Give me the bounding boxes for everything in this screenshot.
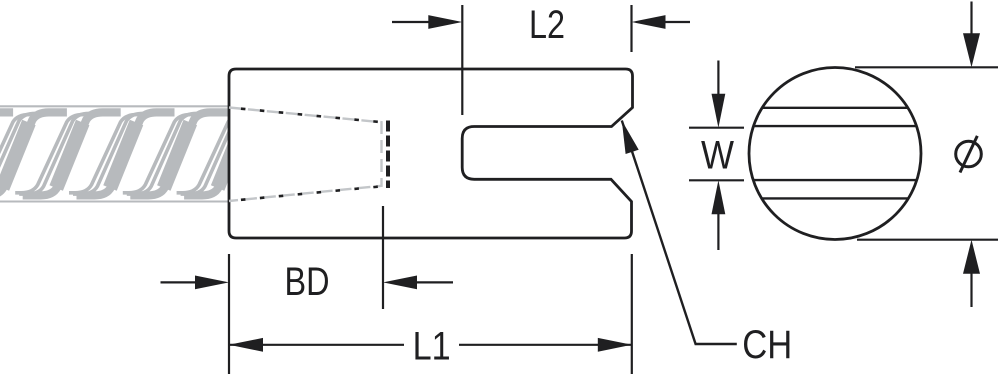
CH leader line and arrow <box>622 121 737 345</box>
L1 left extension line <box>228 254 230 374</box>
BD left arrow <box>161 281 202 283</box>
rebar rib cluster 6 <box>177 115 251 193</box>
hidden taper, black dashes (tapered bore) <box>229 108 388 123</box>
diameter bottom arrow <box>970 271 972 307</box>
svg-text:W: W <box>701 134 734 178</box>
BD right arrow <box>412 281 453 283</box>
BD extension line (bore end) <box>382 206 384 309</box>
L2 right arrow <box>660 21 690 23</box>
svg-text:L2: L2 <box>529 3 565 47</box>
rebar rib cluster 5 <box>123 115 197 193</box>
diameter bottom extension line <box>857 239 998 241</box>
L1 right extension line <box>631 254 633 374</box>
diameter symbol <box>956 141 982 167</box>
slot edge chord bottom <box>753 179 917 181</box>
bore end, black dashed vertical <box>386 121 390 189</box>
chamfer edge chord top <box>762 107 908 109</box>
rebar (deformed bar, light gray) <box>0 106 282 201</box>
L2 left arrow <box>392 21 434 23</box>
L2 extension line (body right face) <box>630 5 632 52</box>
diameter top arrow <box>970 2 972 39</box>
W upper arrow <box>717 61 719 100</box>
L1 dimension line right part <box>459 344 632 346</box>
slot edge chord top <box>754 125 917 127</box>
W tick top <box>689 127 744 129</box>
rebar rib cluster 2 <box>0 115 35 193</box>
coupler body outline <box>229 69 633 238</box>
L1 dimension line left part <box>229 344 404 346</box>
W lower arrow <box>717 209 719 250</box>
end-view circle <box>749 68 921 240</box>
hidden taper, gray dashed (rebar end inside body) <box>229 108 382 202</box>
rebar rib cluster 3 <box>15 115 89 193</box>
chamfer edge chord bottom <box>762 197 909 199</box>
rebar rib cluster 4 <box>69 115 143 193</box>
svg-text:L1: L1 <box>413 325 451 369</box>
svg-text:BD: BD <box>285 260 330 304</box>
svg-text:CH: CH <box>742 323 792 367</box>
diameter top extension line <box>855 66 998 68</box>
L2 extension line (slot end) <box>461 5 463 115</box>
rebar bottom silhouette edge <box>0 201 228 203</box>
rebar top silhouette edge <box>0 105 228 107</box>
W tick bottom <box>689 179 744 181</box>
